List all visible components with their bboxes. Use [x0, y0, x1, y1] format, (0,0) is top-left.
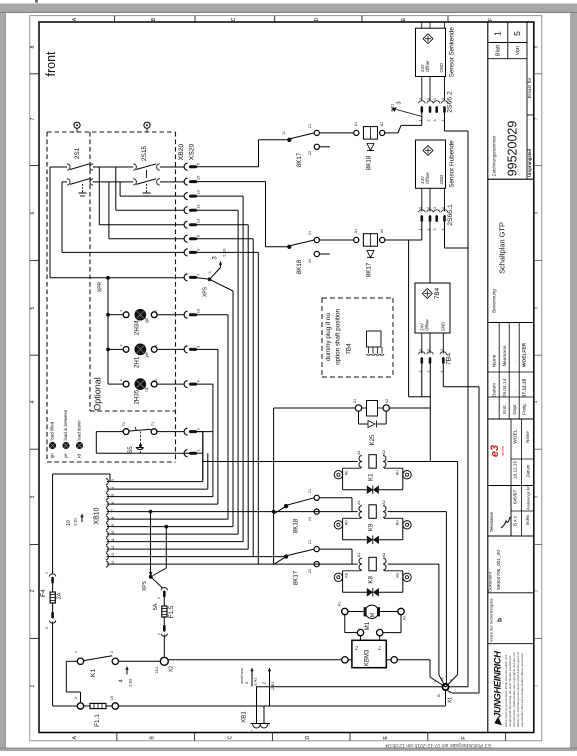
svg-text:E: E [383, 736, 389, 740]
svg-text:rd: rd [144, 387, 149, 392]
svg-text:Öffner: Öffner [425, 60, 430, 72]
svg-text:GND: GND [439, 175, 444, 185]
svg-text:3: 3 [440, 349, 444, 351]
svg-text:K8: K8 [368, 575, 375, 583]
svg-text:1: 1 [45, 572, 49, 574]
svg-text:K9: K9 [368, 523, 375, 531]
svg-text:28.3: 28.3 [155, 667, 159, 674]
svg-text:Ersatz für: Ersatz für [527, 77, 533, 98]
svg-text:22: 22 [308, 569, 312, 573]
svg-text:XPR: XPR [98, 281, 104, 292]
svg-text:series: series [501, 446, 505, 456]
svg-text:6: 6 [111, 502, 115, 504]
svg-text:T2: T2 [122, 422, 126, 426]
svg-text:B: B [150, 736, 156, 740]
svg-text:mobil seat: mobil seat [240, 668, 244, 684]
svg-text:T1: T1 [151, 422, 155, 426]
svg-text:front: front [44, 51, 58, 77]
svg-text:Index der Serienfreigabe: Index der Serienfreigabe [489, 597, 494, 642]
svg-text:B: B [151, 17, 157, 21]
svg-text:ye: ye [63, 453, 68, 458]
svg-text:XPS: XPS [203, 286, 209, 297]
svg-text:6: 6 [534, 211, 539, 214]
svg-text:4: 4 [30, 400, 36, 403]
svg-text:8K18: 8K18 [293, 518, 300, 533]
svg-text:2: 2 [427, 98, 431, 100]
svg-text:15: 15 [196, 175, 201, 180]
svg-text:4: 4 [111, 487, 115, 489]
svg-text:1: 1 [154, 310, 158, 312]
svg-text:4: 4 [441, 98, 445, 100]
svg-text:K1: K1 [368, 473, 375, 481]
svg-text:K25: K25 [369, 434, 376, 446]
svg-text:4: 4 [534, 400, 539, 403]
svg-text:21: 21 [308, 124, 312, 128]
svg-text:7B4: 7B4 [434, 287, 441, 299]
svg-text:Freig.: Freig. [522, 403, 527, 415]
svg-text:2S66.1: 2S66.1 [447, 204, 454, 226]
svg-text:F: F [461, 736, 467, 739]
svg-text:1: 1 [418, 349, 422, 351]
svg-text:dummy plug if no: dummy plug if no [325, 313, 332, 361]
svg-text:2: 2 [157, 597, 161, 599]
svg-text:5: 5 [534, 306, 539, 309]
svg-text:2S1: 2S1 [74, 147, 81, 159]
svg-text:1: 1 [154, 379, 158, 381]
svg-text:10: 10 [110, 696, 114, 700]
svg-text:6: 6 [30, 211, 36, 214]
svg-text:/8.D1: /8.D1 [391, 104, 395, 113]
svg-text:D: D [314, 17, 320, 21]
svg-text:3: 3 [433, 229, 437, 231]
svg-text:Zeichnungsnummer: Zeichnungsnummer [492, 135, 497, 176]
svg-text:B x c: B x c [513, 515, 518, 526]
svg-text:x: x [119, 344, 123, 346]
svg-text:5: 5 [111, 494, 115, 496]
svg-text:1: 1 [244, 681, 249, 684]
svg-text:2H1: 2H1 [134, 356, 141, 368]
svg-text:B-: B- [437, 693, 441, 696]
svg-text:Name: Name [491, 354, 497, 367]
svg-text:A2: A2 [380, 122, 384, 127]
svg-text:M: M [370, 613, 376, 617]
svg-text:645/87: 645/87 [513, 490, 518, 504]
svg-text:GND: GND [439, 63, 444, 73]
svg-text:Telestation: Telestation [489, 511, 494, 532]
svg-text:RD: RD [345, 572, 349, 577]
svg-text:RD: RD [345, 470, 349, 475]
svg-text:21: 21 [308, 489, 312, 493]
svg-text:XB10: XB10 [94, 507, 101, 524]
svg-text:WOEL.: WOEL. [513, 428, 519, 443]
svg-text:option shaft position: option shaft position [335, 308, 342, 365]
svg-text:GND: GND [441, 322, 446, 332]
svg-text:load in between: load in between [63, 409, 68, 440]
svg-text:reproduziert oder auf sonstige: reproduziert oder auf sonstige andere We… [520, 653, 524, 727]
svg-text:8K17: 8K17 [293, 570, 300, 585]
svg-text:1: 1 [30, 684, 36, 687]
svg-text:Öffner: Öffner [425, 172, 430, 184]
svg-text:F1.5: F1.5 [168, 605, 175, 618]
svg-text:/1.E8: /1.E8 [223, 249, 227, 258]
svg-text:Schaltplan GTP: Schaltplan GTP [498, 222, 507, 274]
svg-text:1: 1 [154, 344, 158, 346]
svg-text:8K17: 8K17 [296, 152, 303, 167]
svg-text:x: x [119, 379, 123, 381]
svg-text:2S15: 2S15 [141, 146, 148, 162]
svg-text:1: 1 [418, 207, 422, 209]
svg-text:Index: Index [525, 514, 530, 525]
svg-text:XB1: XB1 [241, 711, 248, 723]
svg-text:10: 10 [66, 520, 72, 526]
svg-text:A2: A2 [382, 450, 386, 455]
svg-text:24: 24 [308, 259, 312, 263]
svg-text:gn: gn [144, 317, 149, 323]
svg-text:Erst.: Erst. [502, 404, 507, 413]
svg-text:Neumann: Neumann [502, 345, 508, 366]
svg-text:8K18: 8K18 [366, 155, 373, 170]
svg-text:Optional: Optional [93, 377, 103, 411]
svg-text:Dokument: Dokument [488, 571, 493, 591]
svg-text:/2.B1: /2.B1 [271, 682, 275, 690]
svg-text:4: 4 [119, 680, 125, 683]
svg-text:99520029: 99520029 [506, 121, 520, 177]
svg-text:3: 3 [111, 479, 115, 481]
svg-text:A2: A2 [403, 616, 407, 621]
svg-text:Gepr.: Gepr. [512, 403, 517, 414]
svg-text:C: C [227, 736, 233, 740]
svg-text:F1.1: F1.1 [94, 714, 101, 727]
svg-text:8: 8 [111, 517, 115, 519]
svg-text:A1: A1 [338, 602, 342, 607]
svg-text:2: 2 [45, 627, 49, 629]
svg-text:A2: A2 [382, 500, 386, 505]
svg-text:S5: S5 [127, 446, 134, 454]
svg-text:BU: BU [396, 520, 400, 525]
svg-text:6: 6 [450, 679, 454, 681]
svg-text:M1: M1 [364, 621, 371, 630]
svg-text:1: 1 [493, 31, 503, 36]
svg-text:2: 2 [427, 349, 431, 351]
svg-text:Blatt: Blatt [496, 44, 502, 56]
svg-text:59004706_001_00: 59004706_001_00 [496, 550, 502, 590]
svg-text:12: 12 [196, 189, 201, 194]
svg-text:10: 10 [196, 308, 201, 313]
svg-text:1: 1 [418, 98, 422, 100]
svg-text:A2: A2 [380, 229, 384, 234]
svg-text:3: 3 [534, 495, 539, 498]
svg-text:29.04.14: 29.04.14 [502, 378, 508, 397]
svg-text:.: . [513, 389, 518, 390]
svg-text:F2: F2 [355, 646, 359, 650]
svg-text:3: 3 [433, 120, 437, 122]
svg-text:8: 8 [441, 677, 445, 679]
svg-text:A: A [72, 17, 78, 21]
svg-text:D: D [305, 736, 311, 740]
svg-text:von: von [515, 46, 521, 55]
svg-text:Änderungs-Nr: Änderungs-Nr [527, 485, 531, 509]
svg-text:A1: A1 [354, 229, 358, 234]
svg-text:3: 3 [212, 256, 219, 260]
svg-text:X1: X1 [353, 399, 357, 404]
svg-text:2: 2 [30, 589, 36, 592]
svg-text:/2.D2: /2.D2 [74, 518, 78, 527]
svg-text:KBM3: KBM3 [365, 649, 371, 666]
svg-text:A1: A1 [357, 500, 361, 505]
svg-text:A1: A1 [357, 553, 361, 558]
svg-text:Datum: Datum [491, 383, 497, 397]
svg-text:5A: 5A [153, 603, 159, 610]
svg-text:XB20: XB20 [178, 143, 185, 160]
svg-text:Sensor Senkende: Sensor Senkende [449, 27, 456, 78]
svg-text:21: 21 [308, 231, 312, 235]
svg-text:XS20: XS20 [189, 143, 196, 160]
svg-text:7: 7 [30, 117, 36, 120]
svg-text:8K18: 8K18 [296, 259, 303, 274]
svg-text:e3: e3 [489, 445, 501, 457]
svg-text:07.12.15: 07.12.15 [522, 378, 528, 397]
svg-text:ye: ye [144, 352, 149, 357]
svg-text:XPS: XPS [142, 580, 148, 591]
svg-text:A2: A2 [382, 553, 386, 558]
svg-text:1: 1 [534, 684, 539, 687]
svg-text:▶JUNGHEINRICH: ▶JUNGHEINRICH [493, 651, 503, 726]
svg-text:F4: F4 [40, 589, 47, 597]
svg-text:load lifted: load lifted [50, 421, 55, 440]
svg-text:2: 2 [534, 589, 539, 592]
svg-text:5: 5 [30, 306, 36, 309]
svg-text:BU: BU [396, 470, 400, 475]
svg-text:F: F [488, 18, 494, 21]
svg-text:Benennung: Benennung [491, 289, 496, 313]
svg-text:BU: BU [396, 572, 400, 577]
svg-text:3: 3 [433, 98, 437, 100]
svg-text:A1: A1 [357, 450, 361, 455]
svg-text:24: 24 [308, 517, 312, 521]
svg-text:gn: gn [50, 453, 55, 458]
svg-text:7: 7 [111, 509, 115, 511]
svg-text:1: 1 [448, 691, 452, 693]
svg-text:E3 PlotUebergabe am 07-12-2015: E3 PlotUebergabe am 07-12-2015 um 12:06:… [385, 742, 491, 748]
svg-text:2H35: 2H35 [134, 389, 141, 404]
svg-text:Ursprungsteil: Ursprungsteil [527, 149, 532, 177]
svg-text:Datum: Datum [526, 464, 531, 477]
svg-text:2: 2 [262, 681, 267, 684]
svg-text:load down: load down [77, 420, 82, 441]
svg-text:3: 3 [30, 495, 36, 498]
svg-text:4: 4 [441, 207, 445, 209]
svg-text:.: . [513, 360, 518, 361]
svg-text:7: 7 [534, 117, 539, 120]
svg-text:3: 3 [397, 101, 403, 104]
svg-text:2: 2 [110, 651, 114, 653]
svg-text:2A: 2A [56, 592, 62, 599]
svg-text:21: 21 [308, 540, 312, 544]
svg-text:rd: rd [77, 454, 82, 458]
svg-text:x: x [119, 310, 123, 312]
svg-text:2: 2 [427, 120, 431, 122]
svg-text:C: C [231, 17, 237, 21]
svg-text:3: 3 [433, 207, 437, 209]
svg-text:13: 13 [196, 218, 201, 223]
svg-text:1: 1 [208, 271, 212, 273]
svg-text:K1: K1 [90, 669, 97, 677]
svg-text:19.11.15: 19.11.15 [513, 461, 519, 480]
svg-text:b: b [497, 618, 504, 622]
svg-text:F1: F1 [378, 646, 382, 650]
svg-text:Name: Name [525, 431, 530, 443]
svg-text:E: E [401, 17, 407, 21]
svg-text:8: 8 [534, 45, 539, 48]
svg-text:7B4: 7B4 [346, 343, 353, 355]
svg-text:/2.E8: /2.E8 [129, 679, 133, 687]
svg-text:RD: RD [345, 520, 349, 525]
svg-text:Sensor Hubende: Sensor Hubende [449, 140, 456, 188]
svg-text:2: 2 [427, 207, 431, 209]
svg-text:8: 8 [30, 45, 36, 48]
svg-text:9: 9 [111, 524, 115, 526]
svg-text:5: 5 [512, 31, 522, 36]
svg-text:1: 1 [157, 633, 161, 635]
svg-text:11: 11 [282, 131, 286, 135]
svg-text:X1: X1 [448, 697, 454, 703]
svg-text:2H34: 2H34 [134, 320, 141, 335]
svg-text:Öffner: Öffner [425, 319, 430, 331]
svg-text:/2.A1: /2.A1 [254, 678, 258, 686]
svg-text:22: 22 [308, 151, 312, 155]
svg-text:X2: X2 [169, 666, 175, 672]
svg-text:7B4: 7B4 [446, 353, 453, 365]
svg-text:2S66.2: 2S66.2 [447, 91, 454, 113]
svg-text:A: A [72, 736, 78, 740]
svg-text:1: 1 [74, 651, 78, 653]
svg-text:WOELFER: WOELFER [522, 342, 528, 367]
svg-text:2: 2 [74, 697, 78, 699]
svg-text:8K17: 8K17 [366, 262, 373, 277]
svg-text:X2: X2 [385, 399, 389, 404]
svg-text:A1: A1 [354, 122, 358, 127]
